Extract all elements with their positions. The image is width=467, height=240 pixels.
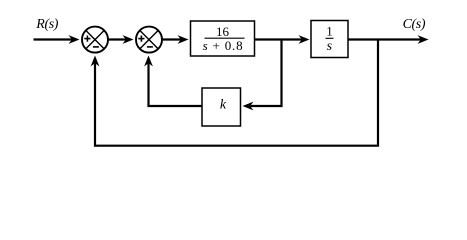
wire outer feedback loop: takeoff down, across bottom, up into S1 xyxy=(95,40,378,146)
wire G2 output to C(s) (with takeoff node to outer loop) xyxy=(348,38,421,40)
wire S1 to S2 xyxy=(109,38,127,40)
wire input to summer S1 xyxy=(34,38,73,40)
summing junction S1 xyxy=(82,27,108,53)
svg-text:s: s xyxy=(327,39,333,54)
svg-text:C(s): C(s) xyxy=(403,17,426,32)
svg-text:1: 1 xyxy=(326,24,333,39)
wire takeoff between G1 and G2 down to k xyxy=(250,40,282,107)
block G2: 1/s xyxy=(311,21,348,58)
svg-text:k: k xyxy=(220,98,227,113)
summing junction S2 xyxy=(136,27,162,53)
svg-text:R(s): R(s) xyxy=(35,17,58,32)
wire G1 to G2 (with takeoff node to k) xyxy=(255,38,303,40)
block k xyxy=(202,88,241,126)
svg-text:s + 0.8: s + 0.8 xyxy=(203,38,244,53)
wire S2 to block G1 xyxy=(163,38,182,40)
block G1: 16/(s+0.8) xyxy=(191,21,255,56)
wire k to S2 (left then up into S2 minus input) xyxy=(149,60,203,106)
svg-text:16: 16 xyxy=(216,24,230,39)
